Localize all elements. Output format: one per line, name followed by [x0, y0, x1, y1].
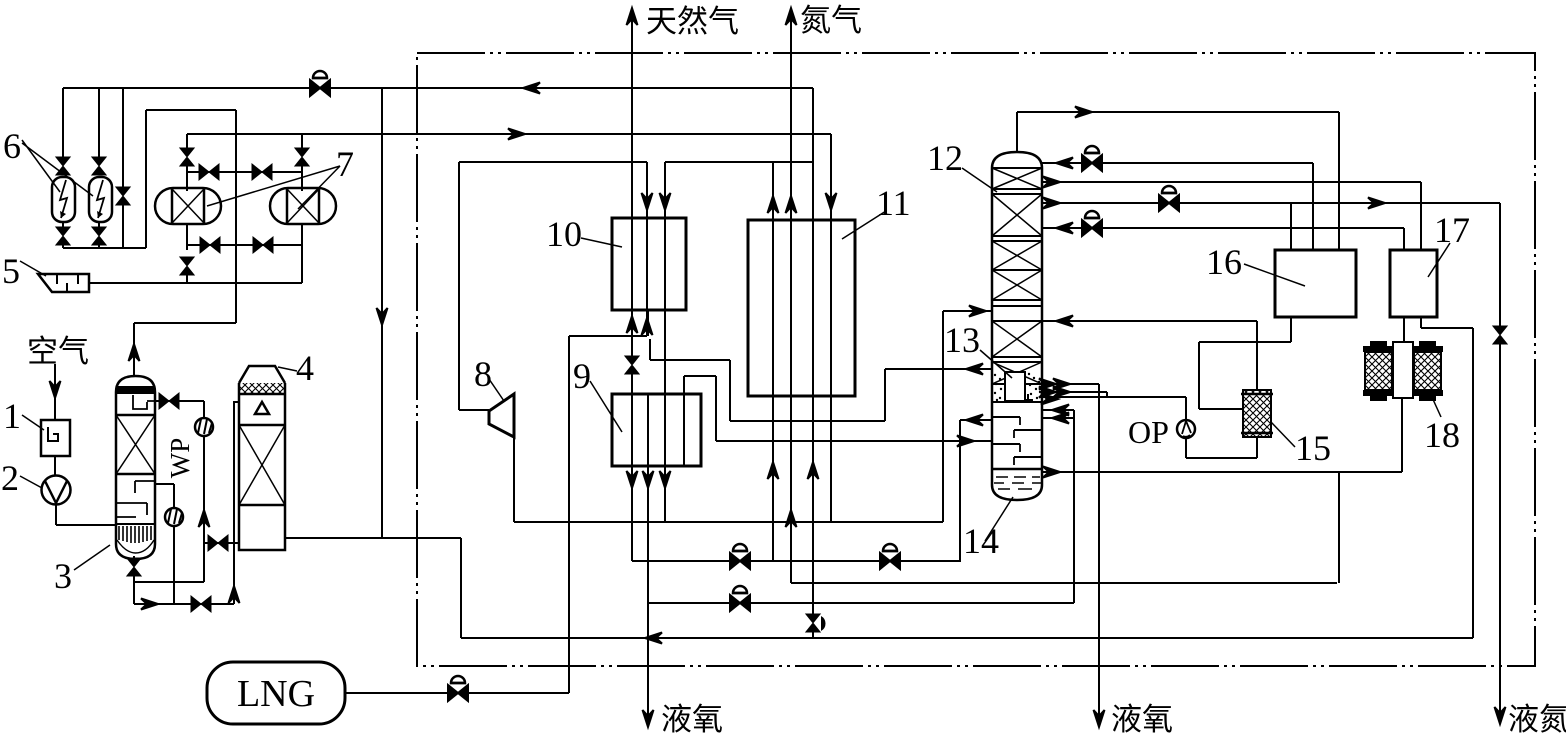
svg-text:4: 4	[296, 348, 314, 388]
svg-text:11: 11	[876, 183, 911, 223]
svg-text:液氧: 液氧	[661, 702, 723, 734]
svg-text:氮气: 氮气	[800, 3, 862, 38]
svg-text:液氧: 液氧	[1111, 702, 1173, 734]
svg-text:16: 16	[1206, 242, 1242, 282]
svg-text:18: 18	[1424, 415, 1460, 455]
svg-text:8: 8	[474, 354, 492, 394]
svg-text:15: 15	[1295, 428, 1331, 468]
svg-text:10: 10	[546, 214, 582, 254]
svg-text:14: 14	[963, 521, 999, 561]
svg-text:5: 5	[2, 251, 20, 291]
svg-text:1: 1	[3, 396, 21, 436]
svg-text:9: 9	[573, 356, 591, 396]
svg-text:液氮: 液氮	[1508, 702, 1566, 734]
svg-text:WP: WP	[165, 438, 195, 479]
svg-text:13: 13	[944, 320, 980, 360]
svg-text:2: 2	[1, 458, 19, 498]
svg-text:6: 6	[3, 126, 21, 166]
svg-text:7: 7	[336, 144, 354, 184]
svg-text:天然气: 天然气	[646, 4, 739, 39]
svg-text:空气: 空气	[27, 334, 89, 369]
svg-text:17: 17	[1434, 210, 1470, 250]
svg-text:3: 3	[54, 556, 72, 596]
svg-text:LNG: LNG	[237, 673, 315, 715]
svg-text:12: 12	[927, 138, 963, 178]
svg-text:OP: OP	[1128, 414, 1169, 450]
